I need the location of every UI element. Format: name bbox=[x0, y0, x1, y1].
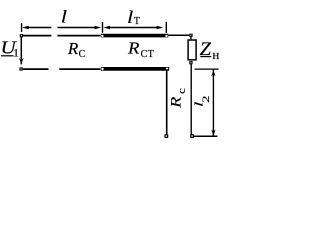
svg-text:l: l bbox=[127, 7, 134, 28]
svg-text:С: С bbox=[79, 49, 86, 60]
dimension arrow left of l bbox=[22, 26, 29, 30]
svg-text:н: н bbox=[212, 47, 219, 62]
rotated label l2 bbox=[193, 95, 211, 107]
dimension arrow l2 up bbox=[211, 70, 215, 76]
dimension tick left (l) bbox=[21, 23, 23, 32]
svg-text:с: с bbox=[175, 87, 188, 94]
dimension line l segment B bbox=[58, 27, 96, 29]
terminal square top-left bbox=[20, 35, 22, 37]
source arrow U1 bbox=[20, 38, 22, 65]
dimension line l2 bbox=[212, 70, 214, 137]
wire top segment A bbox=[23, 35, 52, 37]
load ZH rectangle bbox=[188, 40, 196, 60]
dimension tick l2 top bbox=[195, 68, 219, 70]
stub left terminal square bbox=[165, 135, 168, 138]
dimension arrow l2 down bbox=[211, 130, 215, 136]
svg-text:R: R bbox=[167, 97, 184, 109]
dimension arrow right of l bbox=[95, 26, 102, 30]
thick line section top (transformer) bbox=[101, 34, 168, 38]
dimension arrow left of lT bbox=[103, 26, 110, 30]
thick line section bottom (transformer) bbox=[101, 67, 169, 71]
junction dot top middle bbox=[101, 35, 103, 37]
dimension arrow right of lT bbox=[157, 26, 164, 30]
dimension tick middle bbox=[102, 22, 104, 33]
lead load top bbox=[190, 37, 192, 40]
rotated label Rc bbox=[167, 87, 188, 109]
dimension tick l2 bottom bbox=[194, 135, 218, 137]
junction dot bottom middle bbox=[101, 68, 103, 70]
terminal square load bottom bbox=[190, 62, 192, 64]
svg-text:l: l bbox=[61, 6, 68, 27]
svg-text:1: 1 bbox=[13, 46, 20, 59]
dimension line lT bbox=[109, 27, 159, 29]
wire bottom segment B bbox=[59, 68, 100, 70]
stub right conductor (load bottom lead) bbox=[190, 64, 192, 134]
wire bottom segment A bbox=[23, 68, 49, 70]
stub left conductor bbox=[166, 71, 168, 135]
terminal square bottom-left bbox=[20, 68, 22, 70]
dimension line l segment A bbox=[28, 27, 52, 29]
svg-text:Т: Т bbox=[134, 16, 140, 27]
junction dot top right bbox=[165, 35, 167, 37]
wire to load bbox=[168, 34, 189, 36]
dimension tick right bbox=[165, 22, 167, 33]
corner junction dot bbox=[166, 67, 168, 69]
svg-text:2: 2 bbox=[201, 95, 211, 102]
wire top segment B bbox=[58, 35, 101, 37]
svg-text:R: R bbox=[127, 38, 140, 57]
terminal square load top bbox=[190, 34, 192, 36]
svg-text:СТ: СТ bbox=[141, 49, 155, 60]
svg-text:R: R bbox=[67, 39, 79, 58]
stub right terminal square bbox=[191, 135, 194, 138]
